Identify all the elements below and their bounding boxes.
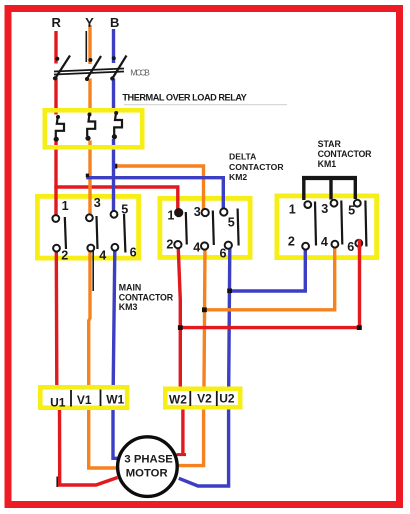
KM3 pole 1-2 contact [52,215,66,252]
KM1 star bridge bar [302,178,357,200]
wire Y MCCB to overload [88,79,91,114]
contactor KM2 enclosure [160,198,250,257]
junction red at KM2 drop [178,325,183,330]
breaker MCCB pole 3 [110,56,126,81]
svg-text:5: 5 [228,215,235,229]
wire terminal V1 to motor [89,409,118,469]
wire B phase to KM3 pin 5 [112,139,115,212]
phase B supply wire [112,29,115,63]
svg-text:6: 6 [130,246,137,260]
wire blue branch Y-line to KM2 pin 5 [86,178,223,209]
svg-text:4: 4 [99,249,106,263]
phase R supply wire [54,31,57,64]
svg-text:5: 5 [348,203,355,217]
contactor KM1 enclosure [277,196,377,258]
svg-text:4: 4 [193,241,200,255]
svg-text:MAIN: MAIN [119,282,141,292]
junction orange branch on B line [115,164,118,169]
svg-text:MOTOR: MOTOR [126,467,168,479]
svg-text:CONTACTOR: CONTACTOR [229,162,284,172]
svg-text:W2: W2 [169,393,187,407]
KM3 pole 3-4 contact [86,214,98,251]
svg-text:2: 2 [166,238,173,252]
svg-text:4: 4 [321,235,328,249]
junction orange at KM2 drop [202,307,207,312]
svg-text:STAR: STAR [318,139,342,149]
svg-text:3: 3 [321,202,328,216]
svg-text:1: 1 [62,199,69,213]
svg-text:6: 6 [220,247,227,261]
wire B MCCB to overload [112,79,115,112]
wire R MCCB to overload [54,78,57,115]
svg-text:Y: Y [85,15,94,30]
svg-text:1: 1 [289,203,296,217]
svg-text:KM2: KM2 [229,172,247,182]
svg-text:2: 2 [288,235,295,249]
svg-text:3 PHASE: 3 PHASE [124,454,173,466]
overload element pole Y [85,113,95,141]
terminal block U1 V1 W1 [40,387,127,409]
svg-text:6: 6 [347,240,354,254]
wire terminal U2 to motor [179,409,229,487]
label MAIN CONTACTOR KM3 [119,282,174,312]
wire terminal W1 to motor [113,409,118,459]
label STAR CONTACTOR KM1 [318,139,373,169]
wire KM2 pin 4 to terminal V2 [204,247,205,387]
wire R branch to KM2 pin 1 [54,187,178,211]
overload element pole B [112,111,122,139]
KM1 pole 5-6 contact [354,200,367,247]
KM2 pole 1-2 contact [174,209,187,248]
svg-text:CONTACTOR: CONTACTOR [119,292,174,302]
wire orange branch B-line to KM2 pin 3 [114,166,204,209]
junction red at KM1 corner [357,325,362,330]
KM1 pole 1-2 contact [302,201,316,249]
KM3 pole 5-6 contact [111,211,126,253]
phase Y supply wire [88,25,91,64]
label DELTA CONTACTOR KM2 [229,152,284,182]
wire KM2 pin 6 to terminal U2 [229,247,230,387]
end tick of W2 wire [177,453,187,456]
svg-text:CONTACTOR: CONTACTOR [318,149,373,159]
wire KM2 pin 2 to terminal W2 [178,247,180,387]
wire KM1 pin 6 stub over terminal [358,239,361,250]
svg-text:B: B [110,15,119,30]
svg-text:THERMAL OVER LOAD RELAY: THERMAL OVER LOAD RELAY [122,93,246,103]
MCCB trip bar [54,69,124,75]
overload element pole R [54,115,64,142]
junction blue branch on Y line [86,174,89,178]
svg-text:3: 3 [94,196,101,210]
svg-text:R: R [52,15,62,30]
svg-text:2: 2 [61,249,68,263]
svg-text:U2: U2 [219,392,235,406]
svg-text:5: 5 [121,203,128,217]
breaker MCCB pole 2 [85,31,101,81]
wire Y phase to KM3 pin 3 [88,141,91,216]
svg-text:KM1: KM1 [318,159,337,169]
wire KM3 pin 2 to terminal U1 [55,250,59,387]
terminal block W2 V2 U2 [165,389,240,407]
svg-text:W1: W1 [106,392,124,406]
wire KM1 pin 6 to delta red node [180,245,359,328]
black mark at U1 wire corner [56,477,58,488]
KM2 pole 3-4 contact [201,209,214,250]
wire KM1 pin 2 to delta blue node [230,249,306,291]
black stub under KM3 pole 4 [92,251,94,291]
junction blue at KM2 drop [227,289,232,294]
motor M [118,437,178,497]
wire KM1 pin 4 to delta orange node [205,247,335,310]
svg-text:V2: V2 [197,392,212,406]
svg-text:U1: U1 [50,396,66,410]
contactor KM3 enclosure [37,196,138,258]
svg-text:V1: V1 [77,393,92,407]
svg-text:1: 1 [167,208,174,222]
breaker MCCB pole 1 [53,56,70,81]
KM1 pole 3-4 contact [331,200,343,248]
overload relay OL enclosure [45,110,142,147]
wire terminal V2 to motor [177,409,204,466]
svg-text:DELTA: DELTA [229,152,256,162]
wire terminal U1 to motor [60,409,118,486]
svg-text:MCCB: MCCB [130,67,150,77]
wire KM3 pin 4 to terminal V1 [89,250,90,387]
KM2 pole 5-6 contact [220,208,238,248]
wire KM3 pin 6 to terminal W1 [113,251,115,387]
svg-text:KM3: KM3 [119,302,138,312]
wire terminal W2 toward motor [181,409,184,454]
wire R phase to KM3 pin 1 [54,142,57,216]
faint underline artifact [124,104,287,106]
svg-text:3: 3 [194,205,201,219]
